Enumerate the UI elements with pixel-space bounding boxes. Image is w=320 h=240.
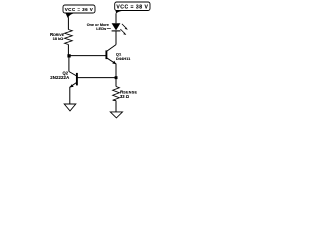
svg-text:2N2222A: 2N2222A	[50, 75, 69, 80]
transistor Q1 D44H11	[106, 45, 131, 65]
wire Q1 emitter to RSENSE	[115, 64, 117, 87]
wire Q2 base to RSENSE node	[78, 77, 117, 79]
svg-text:VCC = 36 V: VCC = 36 V	[65, 7, 94, 12]
transistor Q2 2N2222A	[50, 71, 77, 88]
svg-text:VCC = 38 V: VCC = 38 V	[116, 5, 148, 11]
wire LED cathode to Q1 collector	[115, 31, 117, 44]
VCC callout box left (VCC = 36 V)	[63, 5, 95, 18]
svg-text:D44H11: D44H11	[116, 56, 131, 61]
ground (right)	[110, 112, 122, 118]
wire RSENSE to ground	[115, 101, 117, 112]
label: One or More LEDs with pointer	[87, 23, 111, 31]
wire RDRIVE to node A	[67, 45, 69, 56]
resistor RDRIVE 18 kOhm	[50, 30, 72, 45]
wire node A to Q1 base	[69, 55, 106, 57]
wire VCC2 to LED anode	[115, 13, 117, 23]
svg-text:33 Ω: 33 Ω	[120, 94, 130, 99]
wire VCC1 to RDRIVE	[67, 17, 69, 29]
resistor RSENSE 33 Ohm	[113, 87, 138, 101]
wire Q2 emitter to ground	[69, 87, 71, 104]
node A junction dot	[67, 54, 70, 57]
VCC callout box right (VCC = 36 V)	[115, 2, 150, 14]
junction dot at RSENSE node	[115, 76, 118, 79]
wire node A down to Q2 collector	[68, 56, 70, 72]
svg-text:18 kΩ: 18 kΩ	[53, 36, 64, 41]
ground (left)	[64, 104, 76, 111]
svg-text:LEDs: LEDs	[96, 26, 106, 31]
LED D1 (one or more LEDs)	[112, 23, 128, 35]
